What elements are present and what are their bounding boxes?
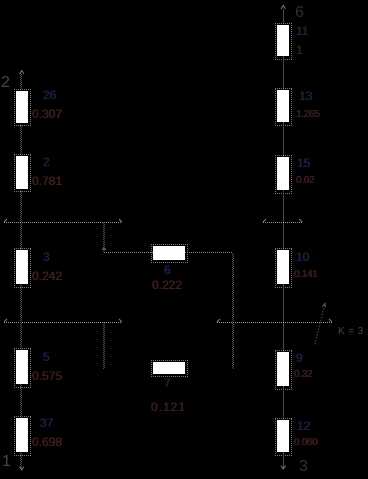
coupling K label xyxy=(338,326,364,337)
rail1-left end ticks xyxy=(4,219,7,222)
wire R2 to R3 xyxy=(283,122,284,157)
resistor D outline xyxy=(14,348,31,388)
resistor R2 value 0.265 xyxy=(296,110,320,120)
resistor R6 value 0.060 xyxy=(294,438,318,448)
wire R-E to terminal-1 xyxy=(20,452,22,468)
resistor R1 outline xyxy=(275,23,292,60)
node 3 (bottom-right port number) xyxy=(299,459,308,475)
corner tick at stub to resistor 6 xyxy=(102,248,106,250)
terminal arrow up (port 6) xyxy=(281,6,286,10)
resistor R4 body xyxy=(277,250,289,284)
resistor D value 0.575 xyxy=(32,370,62,382)
node 1 (bottom-left port number) xyxy=(2,454,11,470)
stub rail1-left down to resistor 6 xyxy=(103,223,105,252)
wire R-C to rail2-left xyxy=(20,284,22,322)
wire rail2-left to R-D xyxy=(20,322,22,350)
wire R-D to R-E xyxy=(20,384,22,418)
resistor R5 outline xyxy=(275,350,292,390)
wire R1 to R2 xyxy=(283,56,284,90)
resistor B body xyxy=(16,156,28,189)
resistor 7 body xyxy=(153,362,185,374)
resistor R5 value 0.32 xyxy=(294,370,312,380)
resistor R5 body xyxy=(277,352,289,386)
wire R3 to R4 crossing rail1-right xyxy=(283,190,284,250)
resistor R5 name xyxy=(296,352,303,364)
resistor R4 value 0.141 xyxy=(294,270,318,280)
resistor E outline xyxy=(14,416,31,456)
resistor R4 name xyxy=(296,251,309,263)
wire stub to resistor 6 left xyxy=(104,252,153,253)
resistor B outline xyxy=(14,154,31,192)
terminal arrow down (port 3) xyxy=(281,466,286,470)
resistor R4 outline xyxy=(275,248,292,288)
wire terminal-6 to R1 xyxy=(283,9,284,24)
rail2-right end ticks xyxy=(217,319,220,322)
wire R5 to R6 xyxy=(283,386,284,420)
resistor E body xyxy=(16,418,28,452)
resistor A name xyxy=(43,89,56,101)
resistor R1 name xyxy=(296,25,308,37)
resistor R6 body xyxy=(277,420,289,452)
rail 2 left (node bus) xyxy=(4,322,122,323)
resistor B value 0.781 xyxy=(32,175,62,187)
resistor B name xyxy=(43,156,50,168)
resistor R6 outline xyxy=(275,418,292,456)
resistor E name xyxy=(40,417,53,429)
resistor D name xyxy=(43,351,50,363)
resistor R3 name xyxy=(297,157,310,169)
resistor R2 name xyxy=(299,90,312,102)
resistor A body xyxy=(16,91,28,123)
rail2-left end ticks xyxy=(4,319,7,322)
rail 1 left (node bus) xyxy=(4,222,122,223)
stub resistor 6 right down through rail2-right xyxy=(232,253,234,369)
rail 2 right (node bus) xyxy=(217,322,332,323)
resistor 6 body xyxy=(153,246,185,260)
resistor 7 outline xyxy=(151,360,188,377)
resistor R2 outline xyxy=(275,88,292,126)
resistor R1 value 1 xyxy=(296,44,303,56)
wire R-A to R-B xyxy=(20,124,22,156)
resistor R3 value 0.02 xyxy=(296,176,314,186)
resistor 6 outline xyxy=(151,244,188,263)
coupling arrow K (diagonal dashed) xyxy=(315,304,325,345)
resistor D body xyxy=(16,350,28,384)
resistor R1 body xyxy=(277,25,289,56)
resistor E value 0.698 xyxy=(32,436,62,448)
resistor 7 name xyxy=(164,377,171,389)
resistor C value 0.242 xyxy=(32,270,62,282)
resistor A value 0.307 xyxy=(32,108,62,120)
resistor R3 body xyxy=(277,157,289,190)
resistor C name xyxy=(43,251,50,263)
rail1-right end ticks xyxy=(263,219,266,222)
node 6 (top-right port number) xyxy=(295,5,304,21)
wire terminal-2 to R-A xyxy=(20,73,22,90)
node 2 (top-left port number) xyxy=(1,75,10,91)
wire R-B to rail1-left xyxy=(20,190,22,223)
resistor R6 name xyxy=(297,420,310,432)
resistor C body xyxy=(16,250,28,284)
resistor 6 name xyxy=(164,264,171,276)
resistor R2 body xyxy=(277,90,289,122)
resistor 6 value 0.222 xyxy=(152,279,182,291)
wire resistor 6 right to stub xyxy=(185,252,233,253)
terminal arrow up (port 2) xyxy=(20,71,25,75)
resistor A outline xyxy=(14,89,31,126)
resistor 7 value 0.121 xyxy=(151,401,186,413)
resistor C outline xyxy=(14,248,31,288)
rail 1 right (node bus) xyxy=(263,222,302,223)
wire rail1-left to R-C xyxy=(20,223,22,250)
wire R6 to terminal-3 xyxy=(283,452,284,468)
terminal arrow down (port 1) xyxy=(20,467,25,471)
wire R4 to R5 crossing rail2-right xyxy=(283,284,284,352)
stub rail2-left down toward resistor 7 xyxy=(103,322,105,369)
resistor R3 outline xyxy=(275,155,292,194)
